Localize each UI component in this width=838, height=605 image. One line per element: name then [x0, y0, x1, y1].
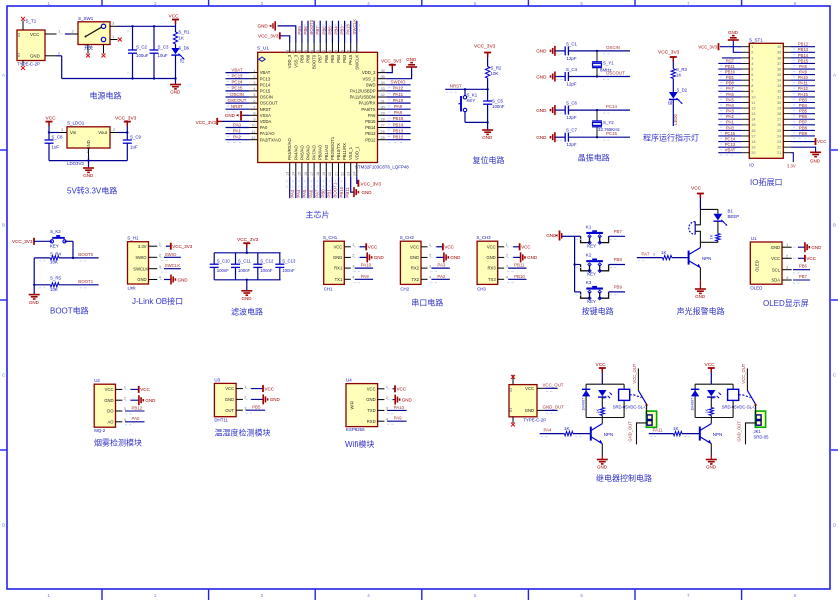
svg-text:PB4: PB4: [799, 103, 808, 108]
svg-text:CH2: CH2: [400, 286, 409, 291]
svg-text:GND: GND: [410, 255, 419, 260]
ground port GND (S_C7 row): [536, 132, 565, 142]
svg-text:RX1: RX1: [334, 266, 343, 271]
power port VCC (CH2 pin1): [430, 243, 454, 250]
svg-text:36: 36: [777, 67, 781, 71]
svg-text:PA8: PA8: [799, 64, 807, 69]
svg-text:PB5: PB5: [327, 26, 332, 35]
svg-text:S_Y1: S_Y1: [603, 61, 614, 66]
svg-text:1K: 1K: [179, 35, 184, 40]
svg-text:K1: K1: [586, 225, 592, 230]
net label PA11 (ST1 pin 33): [791, 81, 815, 89]
svg-text:TX1: TX1: [335, 277, 343, 282]
svg-text:PB1/AO: PB1/AO: [324, 144, 329, 160]
ground GND (CH3 pin2): [507, 252, 538, 262]
label 继电器控制电路: [596, 473, 652, 483]
svg-text:S_R2: S_R2: [491, 65, 503, 70]
svg-text:S_R5: S_R5: [50, 275, 62, 280]
svg-text:Wifi模块: Wifi模块: [345, 439, 374, 449]
svg-text:MQ-2: MQ-2: [94, 428, 106, 433]
resistor S_R5 10K: [33, 275, 99, 291]
svg-text:VCC: VCC: [397, 387, 407, 392]
svg-text:NRST: NRST: [231, 104, 243, 109]
connector U3 (DHT11): [214, 377, 247, 422]
svg-text:S_R3: S_R3: [676, 67, 688, 72]
net label PC14 (ST1 pin 18): [718, 136, 741, 144]
svg-text:18: 18: [751, 140, 755, 144]
net label PA10 (U1 right pin 31): [387, 98, 411, 106]
power port VCC (ESP8266 pin1): [387, 385, 407, 392]
svg-text:21: 21: [334, 172, 338, 176]
svg-text:VDD_1: VDD_1: [354, 146, 359, 160]
net label GND_OUT rotated (relay PA11): [737, 421, 742, 442]
svg-text:TYPE-C-2P: TYPE-C-2P: [523, 418, 546, 423]
net label VCC_OUT rotated (relay PA11): [741, 363, 746, 383]
svg-text:20: 20: [328, 172, 332, 176]
svg-text:PB15: PB15: [393, 116, 404, 121]
net label PA12 (ST1 pin 32): [791, 86, 815, 94]
svg-text:PB6: PB6: [324, 54, 329, 63]
no-ERC mark SW1 stub B: [102, 54, 106, 58]
svg-text:12pF: 12pF: [567, 115, 577, 120]
svg-text:VCC: VCC: [333, 244, 342, 249]
svg-text:B4: B4: [17, 53, 21, 57]
svg-text:OLED显示屏: OLED显示屏: [763, 299, 809, 308]
svg-text:S_C13: S_C13: [282, 259, 296, 264]
svg-text:PA0: PA0: [233, 122, 242, 127]
net label PB8 (key K2): [614, 257, 623, 262]
net label PA8 (ST1 pin 36): [791, 64, 815, 72]
svg-text:GND_OUT: GND_OUT: [628, 421, 633, 442]
svg-text:PA11: PA11: [653, 428, 664, 433]
svg-text:PB1: PB1: [327, 189, 332, 198]
svg-text:S_R1: S_R1: [179, 30, 191, 35]
net label PB8 (U1 top pin 45): [303, 21, 311, 43]
resistor 1K (alarm base): [637, 250, 689, 261]
svg-text:3: 3: [261, 593, 264, 598]
svg-text:3: 3: [261, 1, 264, 6]
label OLED显示屏: [763, 299, 809, 308]
svg-text:40: 40: [777, 45, 781, 49]
svg-text:VCC: VCC: [771, 256, 780, 261]
svg-text:1K: 1K: [709, 234, 714, 239]
svg-text:PA8: PA8: [368, 113, 376, 118]
svg-text:5: 5: [751, 67, 753, 71]
power port VCC_3V3 (run LED): [658, 50, 680, 69]
ground GND (ESP8266 pin2): [387, 395, 412, 405]
svg-text:STM32F103C8T6_LQFP48: STM32F103C8T6_LQFP48: [355, 165, 409, 170]
svg-text:S_CH1: S_CH1: [323, 235, 338, 240]
svg-text:VCC: VCC: [817, 139, 826, 144]
svg-text:PA2: PA2: [726, 114, 734, 119]
svg-text:3.3V: 3.3V: [787, 164, 796, 169]
svg-text:S_CH2: S_CH2: [400, 235, 415, 240]
svg-text:17: 17: [310, 172, 314, 176]
net label PB12 (ST1 pin 40): [791, 42, 815, 50]
svg-text:4: 4: [253, 87, 255, 91]
capacitor S_C11 100nF: [231, 253, 251, 280]
svg-text:10: 10: [751, 95, 755, 99]
svg-text:RXD: RXD: [367, 419, 376, 424]
svg-text:SWCLK: SWCLK: [354, 55, 359, 70]
svg-text:K3: K3: [586, 280, 592, 285]
svg-text:15: 15: [298, 172, 302, 176]
svg-text:S_LDO1: S_LDO1: [67, 121, 85, 126]
svg-text:1K: 1K: [705, 408, 709, 413]
crystal S_Y1 8MHz: [592, 50, 614, 78]
svg-text:PB8: PB8: [614, 257, 623, 262]
svg-text:串口电路: 串口电路: [411, 298, 443, 308]
svg-text:PA9: PA9: [394, 104, 403, 109]
net label PA10 (ST1 pin 34): [791, 75, 815, 83]
svg-text:LDO3V3: LDO3V3: [67, 161, 84, 166]
svg-text:PA5/AO: PA5/AO: [299, 144, 304, 160]
svg-text:S_C2: S_C2: [136, 45, 148, 50]
svg-text:GND: GND: [536, 108, 547, 113]
net label PB9 (key K3): [614, 285, 623, 290]
svg-text:B: B: [833, 223, 836, 228]
label 串口电路: [411, 298, 443, 308]
svg-text:SWD: SWD: [366, 82, 376, 87]
svg-text:VCC_3V3: VCC_3V3: [196, 120, 217, 125]
svg-text:15: 15: [751, 123, 755, 127]
pushbutton K2 KEY: [575, 253, 625, 277]
svg-text:PA2: PA2: [233, 135, 242, 140]
net label PC13 (ST1 pin 19): [718, 142, 741, 150]
no-ERC mark relay TYPEC bottom: [511, 423, 515, 427]
svg-text:PB7: PB7: [315, 26, 320, 35]
svg-text:7: 7: [687, 1, 690, 6]
relay series resistor 1K (PA4): [596, 397, 605, 418]
svg-text:PA11/USBDM: PA11/USBDM: [350, 95, 376, 100]
net label PA10 (CH1 pin3): [354, 263, 373, 272]
svg-text:VBAT: VBAT: [725, 148, 736, 153]
svg-text:PB3: PB3: [342, 54, 347, 63]
svg-text:SWIO: SWIO: [135, 255, 147, 260]
net 3.3V (ST1 pin21): [787, 153, 796, 169]
svg-text:PB10: PB10: [514, 274, 525, 279]
wire power circuit bottom rail: [57, 56, 176, 79]
svg-text:VCC_3V3: VCC_3V3: [361, 181, 382, 186]
svg-text:SCL: SCL: [772, 267, 781, 272]
net label PA4 (ST1 pin 12): [718, 103, 741, 111]
svg-text:B4: B4: [509, 408, 513, 412]
wire LDO input: [48, 131, 59, 133]
relay series resistor 1K (PA11): [705, 397, 714, 418]
svg-text:1K: 1K: [673, 426, 678, 431]
label 5V转3.3V电路: [67, 186, 117, 196]
svg-text:VCC: VCC: [265, 386, 275, 391]
svg-text:SRD-05: SRD-05: [754, 435, 770, 440]
svg-text:26: 26: [777, 123, 781, 127]
net label PB7 (key K1): [614, 229, 623, 234]
net label PB9 (U1 top pin 46): [297, 21, 305, 43]
power port VCC (CH1 pin1): [354, 243, 378, 250]
svg-text:PB11: PB11: [345, 187, 350, 198]
svg-text:GND: GND: [83, 173, 94, 178]
svg-text:VSS_2: VSS_2: [362, 76, 376, 81]
svg-text:22: 22: [340, 172, 344, 176]
svg-text:PB0: PB0: [321, 189, 326, 198]
svg-text:PB12: PB12: [798, 42, 809, 47]
svg-text:NPN: NPN: [713, 432, 723, 437]
net label PC14: [556, 104, 618, 113]
wire ST1 pin3 stub: [722, 57, 742, 59]
svg-text:DO: DO: [107, 409, 114, 414]
svg-text:VDD_2: VDD_2: [362, 70, 376, 75]
svg-text:PB15: PB15: [365, 119, 376, 124]
svg-text:PA6: PA6: [726, 92, 734, 97]
resistor 1K (relay base PA11): [649, 426, 700, 437]
svg-text:PB6: PB6: [799, 264, 808, 269]
net label SWIO (H1 pin2): [160, 252, 181, 261]
ground port GND (S_C6 row): [536, 105, 565, 115]
svg-text:GND: GND: [145, 398, 156, 403]
ground GND (LDO): [83, 161, 94, 179]
svg-text:SDA: SDA: [771, 278, 780, 283]
net label PA9 (ST1 pin 35): [791, 70, 815, 78]
net label BOOT1: [78, 279, 93, 284]
wire BOOT vertical bus: [33, 258, 35, 294]
svg-text:3: 3: [653, 252, 655, 256]
svg-text:SWIO: SWIO: [165, 252, 177, 257]
svg-text:PA10: PA10: [798, 75, 809, 80]
label IO拓展口: [750, 177, 782, 187]
svg-text:VCC_3V3: VCC_3V3: [381, 58, 402, 63]
svg-text:7: 7: [751, 79, 753, 83]
svg-text:U2: U2: [94, 378, 100, 383]
svg-text:PB14: PB14: [798, 53, 809, 58]
svg-text:CH3: CH3: [477, 286, 486, 291]
svg-text:GND: GND: [525, 408, 534, 413]
svg-text:S_C3: S_C3: [158, 45, 170, 50]
ground GND (power circuit): [170, 79, 181, 95]
svg-text:PB10: PB10: [339, 186, 344, 197]
svg-text:IO拓展口: IO拓展口: [750, 177, 782, 187]
svg-text:16: 16: [304, 172, 308, 176]
net label PA11 (U1 right pin 32): [387, 92, 411, 100]
svg-text:21: 21: [777, 151, 781, 155]
svg-text:Vout: Vout: [98, 130, 108, 135]
svg-text:GND: GND: [450, 255, 461, 260]
capacitor S_C3 10uF: [150, 25, 170, 80]
transistor NPN (relay PA4): [591, 418, 614, 456]
svg-text:13: 13: [751, 112, 755, 116]
svg-text:JK1: JK1: [754, 429, 762, 434]
ground GND (CH1 pin2): [354, 252, 385, 262]
capacitor S_C5 100nF: [483, 89, 505, 122]
svg-text:9: 9: [253, 118, 255, 122]
svg-text:CH1: CH1: [324, 286, 333, 291]
net label PB11 (CH3 pin3): [507, 263, 526, 272]
wire T1 pin1 to SW1: [60, 29, 75, 35]
svg-text:LED0: LED0: [673, 113, 678, 125]
wire alarm bottom rail: [700, 241, 718, 243]
svg-text:TXD: TXD: [367, 408, 375, 413]
svg-text:继电器控制电路: 继电器控制电路: [596, 473, 652, 483]
svg-text:主芯片: 主芯片: [306, 210, 330, 220]
svg-text:GND: GND: [137, 277, 146, 282]
net label PB5 (U1 top pin 41): [327, 21, 335, 43]
svg-text:PA0: PA0: [132, 416, 141, 421]
ground port GND (S_C1 row): [536, 46, 565, 56]
svg-text:SWCLK: SWCLK: [133, 266, 148, 271]
svg-text:24: 24: [777, 134, 781, 138]
svg-text:28: 28: [381, 118, 385, 122]
svg-text:GND: GND: [29, 300, 40, 305]
wire reset bottom: [465, 121, 489, 123]
svg-text:PA12/USBDP: PA12/USBDP: [350, 89, 376, 94]
svg-text:VCC_OUT: VCC_OUT: [632, 363, 637, 383]
wire alarm top rail: [700, 208, 718, 210]
net label PA8 (U1 right pin 29): [387, 110, 411, 118]
svg-text:VCC_3V3: VCC_3V3: [237, 237, 259, 243]
net label PA4 (relay base): [544, 428, 553, 433]
no-ERC mark T1 top: [21, 17, 25, 21]
no-ERC mark T1 bottom: [21, 66, 25, 70]
LED B1 BEEP: [714, 209, 740, 234]
svg-text:GND: GND: [402, 397, 413, 402]
svg-text:GND: GND: [178, 277, 189, 282]
svg-text:PA11: PA11: [393, 92, 404, 97]
svg-text:VCC: VCC: [46, 115, 57, 121]
svg-text:VCC_3V3: VCC_3V3: [172, 244, 193, 249]
svg-text:39: 39: [340, 50, 344, 54]
svg-text:S_C7: S_C7: [566, 128, 578, 133]
ground GND (MQ-2 pin2): [125, 395, 156, 405]
svg-text:VDDA: VDDA: [260, 119, 272, 124]
svg-text:1uF: 1uF: [52, 145, 60, 150]
net label PA9 (CH1 pin4): [354, 274, 373, 283]
svg-text:6: 6: [580, 1, 583, 6]
svg-text:1K: 1K: [564, 426, 569, 431]
svg-text:VCC: VCC: [367, 386, 376, 391]
no-ERC mark SW1 pin1: [118, 38, 122, 42]
power port VCC_3V3 (U1 VDD_1): [357, 177, 382, 187]
svg-text:KEY: KEY: [587, 299, 596, 304]
net label BOOT0 (U1 top pin 44): [309, 19, 317, 43]
svg-text:23: 23: [777, 140, 781, 144]
net label PB10 (CH3 pin4): [507, 274, 526, 283]
relay loop wiring (PA4): [586, 384, 624, 417]
relay coil SRD-05VDC-SL-C (PA4): [613, 389, 648, 409]
svg-text:PA1/AO: PA1/AO: [260, 131, 276, 136]
net label PC15 (ST1 pin 17): [718, 131, 741, 139]
svg-text:SWCLK: SWCLK: [165, 263, 181, 268]
net label OSCOUT (U1 left pin 6): [226, 98, 250, 106]
svg-text:S_C6: S_C6: [566, 101, 578, 106]
net label PC13 (U1 left pin 2): [226, 74, 250, 82]
transistor Q1 NPN (alarm): [689, 242, 712, 280]
net label PA2 (U1 left pin 12): [226, 135, 250, 143]
ground GND (OLED pin1): [793, 242, 822, 252]
net label PB13 (U1 right pin 26): [387, 128, 411, 136]
net label PB5 (ST1 pin 28): [791, 109, 815, 117]
label 主芯片: [306, 210, 330, 220]
svg-text:PA6/AO: PA6/AO: [306, 144, 311, 160]
svg-text:1N4007: 1N4007: [581, 398, 585, 411]
capacitor S_C8 1uF: [45, 133, 64, 161]
svg-text:OUT: OUT: [225, 408, 234, 413]
svg-text:10uF: 10uF: [158, 53, 168, 58]
svg-text:1: 1: [253, 69, 255, 73]
ground port GND (U1 VSSA): [225, 111, 250, 121]
svg-text:18: 18: [316, 172, 320, 176]
net label PC15 (U1 left pin 4): [226, 86, 250, 94]
svg-text:KEY: KEY: [50, 243, 59, 248]
svg-text:程序运行指示灯: 程序运行指示灯: [643, 133, 699, 143]
regulator S_LDO1 LDO3V3: [59, 121, 118, 166]
svg-text:27: 27: [381, 124, 385, 128]
svg-text:GND: GND: [597, 465, 608, 470]
power port VCC_3V3 (H1 pin1): [160, 243, 193, 250]
no-ERC mark relay TYPEC top: [511, 375, 515, 379]
svg-text:S_C5: S_C5: [492, 99, 504, 104]
svg-text:按键电路: 按键电路: [582, 306, 614, 316]
svg-text:BOOT1: BOOT1: [333, 182, 338, 197]
connector U1 OLED display: [750, 236, 791, 291]
label BOOT电路: [50, 306, 89, 316]
svg-text:KEY: KEY: [587, 272, 596, 277]
net label PB12 (MQ-2 pin3): [125, 405, 145, 414]
resistor S_R3 1K: [671, 67, 687, 92]
svg-text:VCC: VCC: [444, 245, 454, 250]
svg-text:2: 2: [154, 593, 157, 598]
svg-text:GND: GND: [374, 255, 385, 260]
svg-text:U3: U3: [214, 377, 220, 382]
power port VCC (LDO input): [46, 115, 57, 132]
svg-text:3.3V: 3.3V: [138, 244, 147, 249]
svg-text:PB9: PB9: [299, 54, 304, 63]
svg-text:PA7/AO: PA7/AO: [312, 144, 317, 160]
svg-text:PA1: PA1: [233, 128, 242, 133]
svg-text:PA6: PA6: [308, 189, 313, 198]
svg-text:GND: GND: [30, 54, 40, 59]
svg-text:11: 11: [252, 130, 256, 134]
pushbutton K1 KEY: [575, 225, 625, 249]
svg-text:S_T1: S_T1: [26, 19, 37, 24]
svg-text:PA7: PA7: [726, 86, 734, 91]
svg-text:PC15: PC15: [260, 89, 271, 94]
svg-text:WIFI: WIFI: [350, 401, 355, 410]
pushbutton K3 KEY: [575, 280, 625, 304]
svg-text:VCC_OUT: VCC_OUT: [543, 382, 564, 387]
svg-text:S_Y2: S_Y2: [603, 120, 614, 125]
net label PA9 (U1 right pin 30): [387, 104, 411, 112]
net label PA2 (CH2 pin4): [430, 274, 449, 283]
svg-text:37: 37: [777, 62, 781, 66]
svg-text:VCC: VCC: [225, 386, 234, 391]
svg-text:GND_OUT: GND_OUT: [543, 404, 565, 409]
svg-text:20: 20: [751, 151, 755, 155]
svg-text:PA12: PA12: [798, 86, 809, 91]
svg-text:NRST: NRST: [260, 107, 272, 112]
net label PA3 (CH2 pin3): [430, 263, 449, 272]
svg-text:VCC: VCC: [487, 244, 496, 249]
connector S_CH1 (CH1): [323, 235, 355, 292]
wire GND_OUT (relay PA4): [637, 423, 648, 445]
svg-text:PA11: PA11: [798, 81, 808, 86]
svg-text:PB8: PB8: [306, 54, 311, 63]
svg-text:PB3: PB3: [799, 97, 808, 102]
svg-text:31: 31: [777, 95, 781, 99]
svg-text:100nF: 100nF: [260, 268, 273, 273]
svg-text:PA4: PA4: [726, 103, 734, 108]
svg-text:VCC_3V3: VCC_3V3: [698, 45, 717, 50]
svg-text:22: 22: [777, 146, 781, 150]
relay loop wiring (PA11): [695, 384, 733, 417]
svg-text:6: 6: [253, 99, 255, 103]
